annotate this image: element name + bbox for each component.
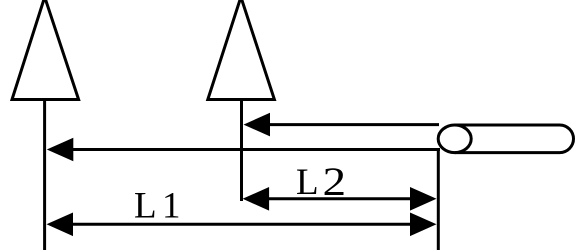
L2 left arrowhead <box>243 187 270 211</box>
L1 right arrowhead <box>410 213 437 237</box>
svg-text:L: L <box>134 185 157 226</box>
wire: arrow shaft from probe to mast 2 <box>266 123 439 126</box>
wire: arrow shaft from right reference line to mast 1 <box>70 148 440 151</box>
antenna 1 triangle <box>12 0 79 100</box>
L2 right arrowhead <box>410 187 437 211</box>
svg-text:1: 1 <box>162 185 181 226</box>
vertical reference line on right <box>437 148 440 250</box>
arrowhead pointing left at mast 1 <box>47 138 74 162</box>
mast 2 (vertical pole under antenna 2) <box>240 100 243 202</box>
svg-text:L: L <box>296 162 319 203</box>
mast 1 (vertical pole under antenna 1) <box>43 100 46 250</box>
dimension arrow L1 shaft <box>70 223 414 226</box>
L1 left arrowhead <box>47 213 74 237</box>
probe cylinder left end cap ellipse <box>438 125 471 153</box>
arrowhead pointing left at mast 2 <box>244 113 271 137</box>
svg-text:2: 2 <box>323 160 347 204</box>
dimension arrow L2 shaft <box>266 197 414 200</box>
antenna 2 triangle <box>208 0 275 100</box>
probe cylinder body <box>455 125 574 153</box>
